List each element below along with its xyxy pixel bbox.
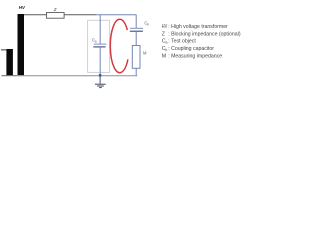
svg-text:HV: HV	[19, 5, 26, 10]
wire: node A to Ck branch	[96, 14, 136, 16]
ground stem wire	[99, 75, 101, 84]
HV transformer secondary winding bar	[18, 14, 25, 75]
wire: transformer top to resistor Z	[24, 14, 47, 16]
capacitor Ck (coupling capacitor) plates	[130, 27, 143, 29]
wire: node A down to capacitor Ca	[99, 15, 101, 44]
svg-text:Z: Blocking impedance (optiona: Z: Blocking impedance (optional)	[162, 31, 241, 37]
svg-text:HV: High voltage transformer: HV: High voltage transformer	[162, 24, 228, 30]
wire: primary winding top stub	[1, 49, 6, 51]
svg-text:Ck: Coupling capacitor: Ck: Coupling capacitor	[162, 46, 215, 52]
wire: resistor Z to node A	[64, 14, 96, 16]
wire: capacitor Ca down to ground rail	[99, 47, 101, 75]
wire: primary winding bottom	[2, 75, 18, 77]
capacitor Ca (test object) plates	[94, 43, 107, 45]
svg-text:M: M	[143, 51, 147, 56]
HV transformer primary winding bar	[6, 49, 12, 75]
ground symbol	[95, 83, 106, 85]
svg-text:Z: Z	[53, 7, 57, 12]
test object outline (faint box)	[88, 20, 110, 72]
wire: capacitor Ck to measuring impedance M	[135, 31, 137, 45]
measuring impedance M box	[132, 46, 140, 69]
svg-text:M: Measuring impedance: M: Measuring impedance	[162, 53, 222, 59]
wire: top wire down to capacitor Ck	[135, 15, 137, 28]
highlight ellipse (red)	[110, 19, 128, 73]
junction node at ground rail	[99, 74, 101, 76]
wire: M box to ground rail	[135, 68, 137, 75]
svg-text:a: a	[95, 39, 97, 43]
resistor Z (blocking impedance)	[47, 13, 65, 19]
ground rail wire	[17, 75, 96, 77]
